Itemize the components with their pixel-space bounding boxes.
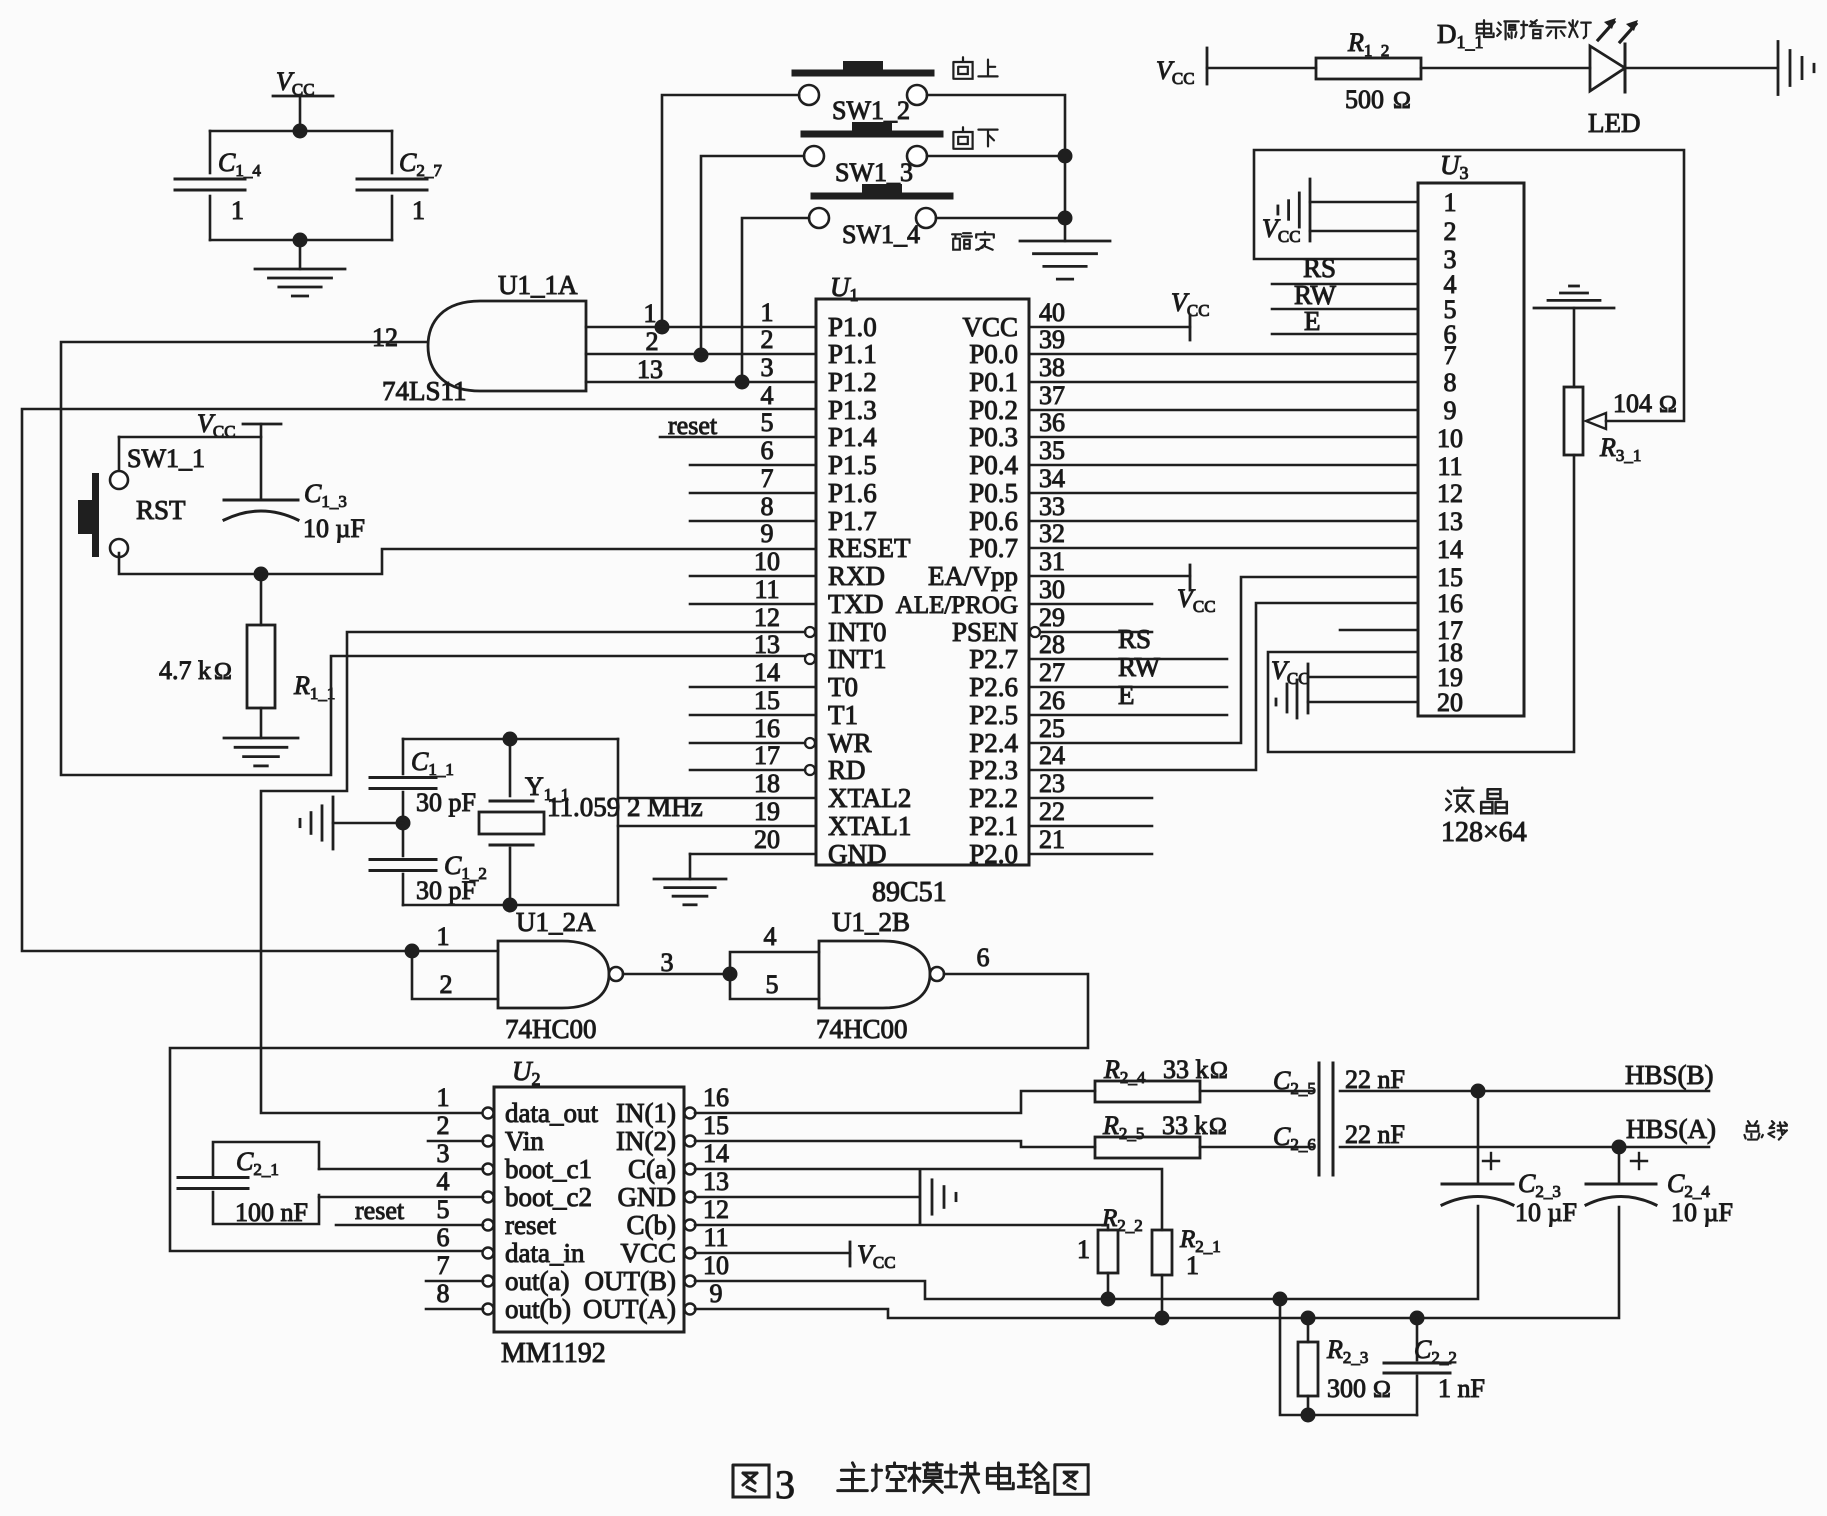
svg-text:74HC00: 74HC00 [505,1014,597,1044]
svg-text:37: 37 [1039,381,1065,410]
svg-text:6: 6 [761,436,774,465]
svg-text:C(b): C(b) [627,1210,677,1240]
svg-text:INT1: INT1 [828,644,886,674]
svg-text:SW1_4: SW1_4 [842,220,920,249]
svg-text:21: 21 [1039,825,1065,854]
svg-text:31: 31 [1039,547,1065,576]
svg-text:9: 9 [1444,396,1457,425]
svg-text:XTAL2: XTAL2 [828,783,911,813]
svg-text:1: 1 [437,1083,450,1112]
svg-text:40: 40 [1039,298,1065,327]
svg-text:Ω: Ω [1659,392,1677,418]
svg-text:P0.7: P0.7 [969,533,1018,563]
svg-text:18: 18 [754,769,780,798]
svg-text:T0: T0 [828,672,858,702]
svg-text:P0.2: P0.2 [969,395,1018,425]
svg-text:RXD: RXD [828,561,885,591]
svg-text:12: 12 [372,323,398,352]
svg-text:2: 2 [761,325,774,354]
svg-text:11: 11 [703,1223,728,1252]
svg-text:WR: WR [828,728,872,758]
svg-text:30 pF: 30 pF [416,788,476,817]
svg-text:XTAL1: XTAL1 [828,811,911,841]
svg-text:4: 4 [764,922,777,951]
svg-text:28: 28 [1039,630,1065,659]
svg-text:1: 1 [1077,1235,1090,1264]
svg-text:VCC: VCC [620,1238,676,1268]
svg-text:HBS(A): HBS(A) [1626,1114,1716,1144]
svg-text:P0.1: P0.1 [969,367,1018,397]
svg-text:25: 25 [1039,714,1065,743]
svg-text:3: 3 [761,353,774,382]
svg-text:33: 33 [1039,492,1065,521]
svg-text:39: 39 [1039,325,1065,354]
svg-text:13: 13 [754,630,780,659]
svg-text:26: 26 [1039,686,1065,715]
svg-text:ALE/PROG: ALE/PROG [896,592,1018,619]
svg-text:12: 12 [754,603,780,632]
svg-text:P2.5: P2.5 [969,700,1018,730]
svg-text:P1.6: P1.6 [828,478,877,508]
svg-text:Ω: Ω [1209,1114,1227,1140]
svg-text:16: 16 [1437,589,1463,618]
svg-text:C(a): C(a) [628,1154,676,1184]
svg-text:20: 20 [1437,688,1463,717]
svg-text:IN(1): IN(1) [616,1098,676,1128]
svg-text:2: 2 [440,970,453,999]
svg-text:74LS11: 74LS11 [382,376,467,406]
svg-text:12: 12 [1437,479,1463,508]
svg-text:HBS(B): HBS(B) [1625,1060,1714,1090]
svg-text:35: 35 [1039,436,1065,465]
svg-text:2: 2 [1444,217,1457,246]
svg-text:10 µF: 10 µF [1515,1198,1577,1227]
svg-text:14: 14 [754,658,780,687]
svg-text:SW1_3: SW1_3 [835,158,913,187]
svg-text:1: 1 [412,196,425,225]
svg-text:U1_2B: U1_2B [832,907,910,937]
svg-text:19: 19 [754,797,780,826]
svg-text:1: 1 [437,922,450,951]
svg-text:7: 7 [1444,341,1457,370]
svg-text:15: 15 [1437,563,1463,592]
svg-text:20: 20 [754,825,780,854]
svg-text:32: 32 [1039,519,1065,548]
svg-text:RST: RST [136,495,186,525]
svg-text:23: 23 [1039,769,1065,798]
svg-text:22 nF: 22 nF [1345,1065,1405,1094]
svg-text:Ω: Ω [214,659,232,685]
svg-text:boot_c1: boot_c1 [505,1154,592,1184]
svg-text:RS: RS [1303,253,1336,283]
svg-text:33 k: 33 k [1163,1055,1209,1084]
svg-text:100 nF: 100 nF [235,1198,308,1227]
svg-text:RD: RD [828,755,866,785]
svg-text:RESET: RESET [828,533,911,563]
svg-text:T1: T1 [828,700,858,730]
svg-text:7: 7 [437,1251,450,1280]
svg-text:SW1_1: SW1_1 [127,444,205,473]
svg-text:4: 4 [761,381,774,410]
svg-text:P0.5: P0.5 [969,478,1018,508]
svg-text:16: 16 [703,1083,729,1112]
svg-text:10 µF: 10 µF [303,514,365,543]
svg-text:1: 1 [1186,1251,1199,1280]
svg-text:1: 1 [1444,188,1457,217]
svg-text:34: 34 [1039,464,1065,493]
svg-text:11: 11 [754,575,779,604]
svg-text:U1_2A: U1_2A [516,907,596,937]
svg-text:P2.2: P2.2 [969,783,1018,813]
svg-text:data_in: data_in [505,1238,585,1268]
svg-text:data_out: data_out [505,1098,598,1128]
svg-text:EA/Vpp: EA/Vpp [928,561,1018,591]
svg-text:6: 6 [977,943,990,972]
svg-text:P2.6: P2.6 [969,672,1018,702]
svg-text:24: 24 [1039,741,1065,770]
svg-text:1: 1 [761,298,774,327]
svg-text:8: 8 [437,1279,450,1308]
svg-text:38: 38 [1039,353,1065,382]
svg-text:30: 30 [1039,575,1065,604]
svg-text:12: 12 [703,1195,729,1224]
svg-text:33 k: 33 k [1162,1111,1208,1140]
svg-text:P0.6: P0.6 [969,506,1018,536]
svg-text:Ω: Ω [1373,1377,1391,1403]
svg-text:17: 17 [754,741,780,770]
svg-text:Vin: Vin [505,1126,544,1156]
svg-text:5: 5 [761,408,774,437]
svg-text:INT0: INT0 [828,617,886,647]
svg-text:Ω: Ω [1210,1058,1228,1084]
svg-text:P1.5: P1.5 [828,450,877,480]
svg-text:16: 16 [754,714,780,743]
svg-text:22: 22 [1039,797,1065,826]
svg-text:P2.7: P2.7 [969,644,1018,674]
svg-text:RW: RW [1118,652,1161,682]
svg-text:P0.4: P0.4 [969,450,1018,480]
svg-text:500: 500 [1345,85,1384,114]
svg-text:PSEN: PSEN [952,617,1018,647]
svg-text:TXD: TXD [828,589,884,619]
svg-text:9: 9 [710,1279,723,1308]
svg-text:13: 13 [703,1167,729,1196]
svg-text:11: 11 [1437,452,1462,481]
svg-text:P1.4: P1.4 [828,422,877,452]
svg-text:9: 9 [761,519,774,548]
svg-text:out(a): out(a) [505,1266,569,1296]
svg-text:5: 5 [766,970,779,999]
svg-text:7: 7 [761,464,774,493]
svg-text:10: 10 [1437,424,1463,453]
svg-text:out(b): out(b) [505,1294,571,1324]
svg-text:boot_c2: boot_c2 [505,1182,592,1212]
svg-text:4.7 k: 4.7 k [159,656,211,685]
svg-text:RS: RS [1118,624,1151,654]
svg-text:3: 3 [775,1462,795,1507]
svg-text:5: 5 [437,1195,450,1224]
svg-text:8: 8 [1444,368,1457,397]
svg-text:300: 300 [1327,1374,1366,1403]
svg-text:LED: LED [1588,108,1640,138]
svg-text:1 nF: 1 nF [1438,1374,1485,1403]
svg-text:13: 13 [1437,507,1463,536]
svg-text:27: 27 [1039,658,1065,687]
svg-text:6: 6 [437,1223,450,1252]
svg-text:P2.3: P2.3 [969,755,1018,785]
svg-text:E: E [1118,680,1135,710]
svg-text:29: 29 [1039,603,1065,632]
svg-text:P2.1: P2.1 [969,811,1018,841]
svg-text:SW1_2: SW1_2 [832,96,910,125]
svg-text:P1.1: P1.1 [828,339,877,369]
svg-text:10: 10 [703,1251,729,1280]
svg-text:OUT(B): OUT(B) [585,1266,676,1296]
svg-text:GND: GND [828,839,887,869]
svg-text:3: 3 [661,948,674,977]
svg-text:1: 1 [231,196,244,225]
svg-text:36: 36 [1039,408,1065,437]
svg-text:MM1192: MM1192 [501,1338,606,1369]
svg-text:10: 10 [754,547,780,576]
svg-text:P2.0: P2.0 [969,839,1018,869]
svg-text:P0.3: P0.3 [969,422,1018,452]
svg-text:reset: reset [355,1196,405,1225]
svg-text:P2.4: P2.4 [969,728,1018,758]
svg-text:P1.7: P1.7 [828,506,877,536]
svg-text:74HC00: 74HC00 [816,1014,908,1044]
svg-text:8: 8 [761,492,774,521]
svg-text:4: 4 [437,1167,450,1196]
svg-text:14: 14 [1437,535,1463,564]
svg-text:OUT(A): OUT(A) [583,1294,676,1324]
svg-text:30 pF: 30 pF [416,876,476,905]
svg-text:reset: reset [668,411,718,440]
svg-text:11.059 2 MHz: 11.059 2 MHz [547,792,703,822]
svg-text:IN(2): IN(2) [616,1126,676,1156]
svg-text:VCC: VCC [962,312,1018,342]
svg-text:3: 3 [437,1139,450,1168]
svg-text:1: 1 [644,299,657,328]
svg-text:14: 14 [703,1139,729,1168]
svg-text:U1_1A: U1_1A [498,270,578,300]
svg-text:GND: GND [618,1182,677,1212]
svg-text:P1.0: P1.0 [828,312,877,342]
svg-text:13: 13 [637,355,663,384]
svg-text:15: 15 [703,1111,729,1140]
svg-text:10 µF: 10 µF [1671,1198,1733,1227]
svg-text:22 nF: 22 nF [1345,1120,1405,1149]
svg-text:2: 2 [646,327,659,356]
svg-text:89C51: 89C51 [872,877,947,908]
svg-text:P1.3: P1.3 [828,395,877,425]
svg-text:P0.0: P0.0 [969,339,1018,369]
svg-text:128×64: 128×64 [1441,817,1527,848]
svg-text:15: 15 [754,686,780,715]
svg-text:Ω: Ω [1393,88,1411,114]
svg-text:P1.2: P1.2 [828,367,877,397]
svg-text:104: 104 [1613,389,1652,418]
svg-text:2: 2 [437,1111,450,1140]
svg-text:reset: reset [505,1210,556,1240]
svg-text:E: E [1304,306,1321,336]
